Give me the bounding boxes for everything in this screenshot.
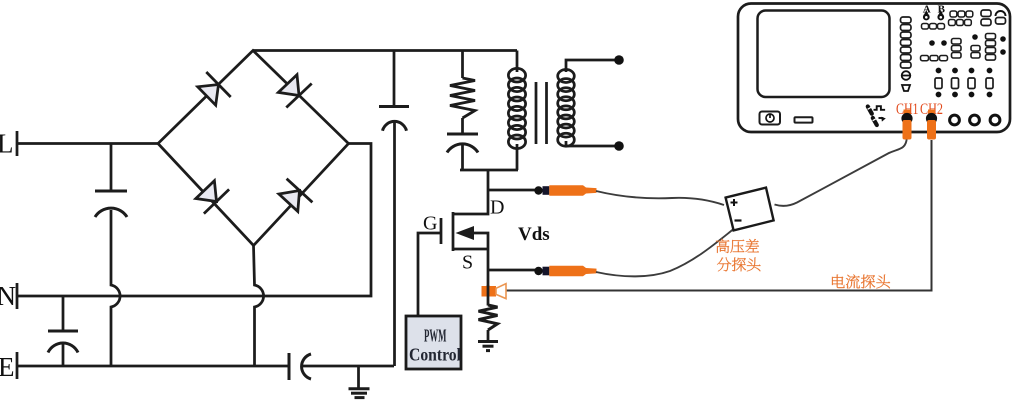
svg-text:G: G [423, 213, 437, 235]
svg-text:PWM: PWM [424, 326, 447, 346]
svg-text:D: D [490, 197, 504, 219]
svg-text:N: N [0, 281, 16, 311]
svg-text:E: E [0, 352, 15, 382]
svg-text:Vds: Vds [518, 224, 550, 245]
svg-text:S: S [462, 252, 473, 274]
svg-text:Control: Control [409, 345, 461, 365]
svg-text:L: L [0, 129, 14, 159]
